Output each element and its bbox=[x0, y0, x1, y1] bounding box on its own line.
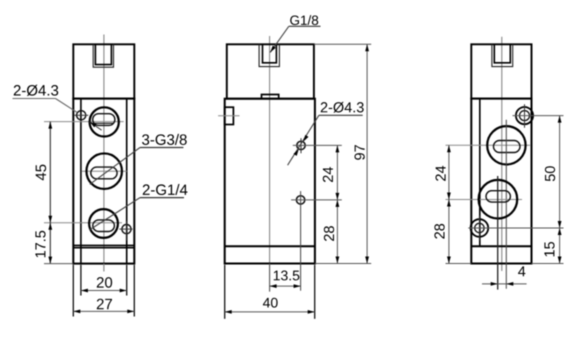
leader line 2-G1/4 to port 3 bbox=[90, 198, 140, 230]
text 28 middle rotated bbox=[324, 226, 334, 241]
notch inner U middle bbox=[263, 44, 277, 63]
port 3 circle bbox=[89, 209, 118, 238]
screw 2 crosshair v bbox=[478, 216, 480, 241]
notch outer U middle bbox=[259, 44, 279, 66]
text 13.5 bbox=[274, 271, 300, 281]
mounting hole 2 crosshair v bbox=[125, 221, 127, 241]
centerline vertical left view bbox=[103, 35, 105, 272]
port 1 horizontal centerline bbox=[44, 121, 124, 123]
leader underline 2-Ø4.3 bbox=[13, 98, 56, 100]
port 1 circle bbox=[90, 107, 119, 136]
side fitting rectangle on left edge bbox=[225, 107, 234, 124]
13.5 dimension bbox=[269, 264, 271, 292]
notch outer U left view bbox=[93, 44, 113, 67]
arrowhead lower on leader bbox=[294, 149, 299, 156]
pilot hole 2 middle view bbox=[296, 196, 304, 204]
body outline middle view bbox=[225, 99, 315, 264]
inner vertical left right-view bbox=[479, 99, 481, 247]
arrowhead G1/8 bbox=[270, 46, 276, 53]
text 27 bbox=[97, 299, 112, 309]
97 dimension line bbox=[366, 44, 368, 263]
mounting hole 1 crosshair bbox=[74, 114, 88, 116]
base double line 1 bbox=[73, 244, 134, 246]
port B circle bbox=[479, 180, 518, 219]
text 17.5 rotated bbox=[35, 231, 45, 258]
50/15 dimension line bbox=[559, 116, 561, 264]
port A slot stadium bbox=[494, 141, 521, 153]
24/28 dimension right view bbox=[448, 145, 450, 263]
pilot hole 2 vertical centerline down to 13.5 dim bbox=[300, 191, 302, 291]
screw 1 crosshair h + 50 ext bbox=[513, 115, 564, 117]
port 3 horizontal centerline bbox=[44, 222, 122, 224]
40 dimension line bbox=[225, 311, 315, 313]
port A vertical centerline bbox=[505, 120, 507, 289]
leader arrowhead at port 1 edge bbox=[90, 122, 97, 128]
arrowhead upper on leader bbox=[303, 135, 308, 142]
dimension line 27 bbox=[73, 310, 134, 312]
text 4 bbox=[518, 266, 525, 276]
text 24 right view bbox=[435, 166, 445, 181]
centerline vertical right view bbox=[501, 37, 503, 271]
inner vertical line right bbox=[126, 99, 128, 264]
text 45 rotated bbox=[36, 165, 46, 181]
port 2 slot stadium bbox=[91, 167, 117, 179]
extension lines for 20 dim bbox=[80, 265, 82, 296]
body outline left view bbox=[73, 99, 134, 264]
extension lines for 27 dim bbox=[72, 265, 74, 317]
port 3 slot stadium bbox=[93, 220, 115, 232]
bottom line left extension right view bbox=[446, 263, 472, 265]
body outline right view bbox=[471, 99, 531, 264]
screw 1 outer bbox=[516, 107, 533, 124]
underline G1/8 bbox=[289, 25, 321, 27]
label G1/8 bbox=[290, 15, 318, 25]
port B vertical centerline bbox=[497, 176, 499, 290]
pilot hole 1 crosshair h + ext for 24 bbox=[293, 144, 342, 146]
text 28 right view bbox=[434, 224, 444, 239]
port B slot stadium bbox=[486, 191, 510, 202]
label 2-Ø4.3 left view bbox=[14, 85, 58, 96]
notch inner U left view bbox=[95, 44, 111, 64]
port A circle bbox=[487, 126, 525, 164]
label 3-G3/8 bbox=[142, 134, 187, 145]
base double line 2 bbox=[73, 247, 134, 249]
text 20 bbox=[97, 277, 112, 288]
dimension line 20 bbox=[81, 290, 127, 292]
manual override tab on interface bbox=[262, 95, 279, 99]
4 dimension bbox=[482, 283, 527, 285]
text 24 middle rotated bbox=[323, 167, 333, 182]
bottom line right extension right view bbox=[532, 263, 564, 265]
screw 1 inner bbox=[520, 111, 530, 121]
port 2 circle bbox=[86, 153, 122, 189]
97 bottom extension line bbox=[315, 263, 371, 265]
solenoid block left view bbox=[73, 44, 134, 98]
underline 2-Ø4.3 middle bbox=[319, 114, 363, 116]
port B horizontal centerline bbox=[446, 199, 523, 201]
leader underline 3-G3/8 bbox=[140, 147, 183, 149]
extension of bottom line to left bbox=[44, 263, 73, 265]
port 2 horizontal centerline bbox=[82, 170, 127, 172]
leader line 3-G3/8 to port 2 bbox=[90, 148, 140, 185]
label 2-G1/4 bbox=[143, 184, 188, 195]
leader G1/8 bbox=[270, 26, 289, 52]
pilot hole 1 crosshair v bbox=[300, 138, 302, 153]
solenoid block right view bbox=[471, 44, 531, 98]
text 97 rotated bbox=[354, 145, 364, 160]
text 15 rotated bbox=[544, 242, 554, 256]
97 top extension line bbox=[314, 43, 371, 45]
notch inner U right bbox=[494, 44, 510, 63]
24/28 dimension line middle bbox=[336, 145, 338, 263]
solenoid block middle view bbox=[227, 44, 314, 98]
arrow down at 263.6 bbox=[48, 257, 52, 264]
40 extension lines bbox=[224, 265, 226, 319]
mounting hole 2 crosshair h bbox=[119, 228, 132, 230]
port A horizontal centerline bbox=[446, 144, 531, 146]
text 50 rotated bbox=[545, 166, 555, 181]
mid horizontal line middle view bbox=[225, 245, 315, 247]
leader segment to hole 1 bbox=[56, 99, 78, 113]
pilot hole 1 middle view bbox=[297, 141, 305, 149]
dimension line 45 and 17.5 bbox=[49, 122, 51, 264]
fitting centerline bbox=[218, 115, 239, 117]
screw 2 outer bbox=[471, 219, 489, 237]
label 2-Ø4.3 middle view bbox=[321, 102, 364, 113]
centerline short below body bbox=[103, 264, 105, 272]
notch outer U right bbox=[492, 44, 513, 66]
inner vertical line left bbox=[80, 99, 82, 264]
leader 2-Ø4.3 middle through hole 1 bbox=[288, 115, 319, 165]
port 1 slot chord bbox=[95, 122, 114, 124]
text 40 bbox=[263, 298, 278, 308]
mounting hole 1 bbox=[77, 111, 86, 120]
pilot hole 2 crosshair h + ext for 28 bbox=[291, 199, 342, 201]
arrow pair at 222.8 bbox=[48, 216, 52, 223]
screw 1 crosshair v bbox=[524, 104, 526, 128]
mid horizontal line right view bbox=[471, 245, 531, 247]
screw 2 crosshair h + 15 extension bbox=[468, 227, 563, 229]
leader underline 2-G1/4 bbox=[140, 197, 184, 199]
screw 2 inner bbox=[475, 223, 484, 232]
arrow up at 121.6 bbox=[48, 122, 52, 129]
leader tail segment bbox=[90, 122, 102, 130]
mounting hole 2 bbox=[122, 225, 131, 234]
port 1 slot stadium bbox=[93, 114, 115, 126]
centerline vertical middle view bbox=[269, 36, 271, 292]
